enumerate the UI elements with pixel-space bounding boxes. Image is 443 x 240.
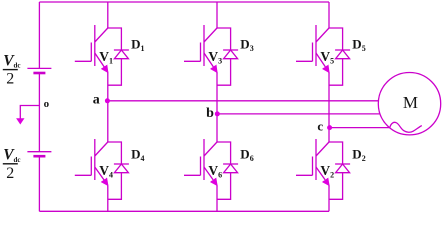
svg-text:D1: D1: [131, 36, 144, 53]
svg-text:V1: V1: [99, 49, 113, 66]
wire leg 2 bottom emitter to rail: [216, 186, 218, 212]
transistor V1: [75, 25, 108, 72]
diode D5: [329, 28, 350, 85]
svg-text:V6: V6: [208, 163, 222, 180]
diode D3: [217, 28, 238, 85]
svg-text:Vdc: Vdc: [3, 147, 20, 164]
wire left DC bus upper segment: [38, 2, 40, 68]
wire leg 2 top collector stub: [216, 2, 218, 28]
wire leg 3 top collector stub: [328, 2, 330, 28]
label Vdc/2 upper: [3, 53, 21, 88]
svg-text:D5: D5: [352, 36, 365, 53]
wire top DC rail: [39, 1, 329, 3]
diode D4: [108, 142, 129, 199]
transistor V6: [184, 139, 217, 185]
diode D6: [217, 142, 238, 199]
wire left DC bus middle segment: [38, 73, 40, 152]
label Vdc/2 lower: [3, 147, 21, 182]
svg-text:D6: D6: [240, 146, 253, 163]
node a: [105, 98, 110, 103]
svg-text:V3: V3: [208, 49, 222, 66]
svg-text:D4: D4: [131, 146, 144, 163]
svg-text:Vdc: Vdc: [3, 53, 20, 70]
wire left DC bus lower segment: [38, 156, 40, 211]
node c: [327, 125, 332, 130]
diode D2: [329, 142, 350, 199]
svg-text:D2: D2: [352, 146, 365, 163]
battery Vdc/2 lower: [27, 152, 51, 157]
wire leg 1 midpoint vertical: [107, 72, 109, 142]
svg-text:c: c: [317, 119, 323, 134]
battery Vdc/2 upper: [27, 68, 51, 73]
wire leg 2 midpoint vertical: [216, 72, 218, 142]
wire midpoint branch to reference arrow: [20, 106, 39, 124]
svg-text:2: 2: [6, 165, 14, 182]
svg-text:V2: V2: [320, 163, 334, 180]
wire leg 3 midpoint vertical: [328, 72, 330, 142]
svg-text:a: a: [93, 93, 100, 108]
transistor V4: [75, 139, 108, 185]
wire phase b: [217, 113, 380, 115]
node b: [215, 111, 220, 116]
wire leg 1 bottom emitter to rail: [107, 186, 109, 212]
svg-text:o: o: [44, 98, 50, 110]
transistor V3: [184, 25, 217, 72]
svg-text:V4: V4: [99, 163, 113, 180]
diode D1: [108, 28, 129, 85]
svg-text:2: 2: [6, 71, 14, 88]
wire leg 1 top collector stub: [107, 2, 109, 28]
wire bottom DC rail: [39, 210, 329, 212]
svg-text:b: b: [206, 106, 214, 121]
svg-text:D3: D3: [240, 36, 253, 53]
transistor V5: [296, 25, 329, 72]
wire phase c: [329, 127, 390, 129]
wire leg 3 bottom emitter to rail: [328, 186, 330, 212]
transistor V2: [296, 139, 329, 185]
svg-text:M: M: [403, 93, 418, 112]
svg-text:V5: V5: [320, 49, 334, 66]
wire phase a: [108, 100, 379, 102]
motor M: [378, 73, 440, 135]
